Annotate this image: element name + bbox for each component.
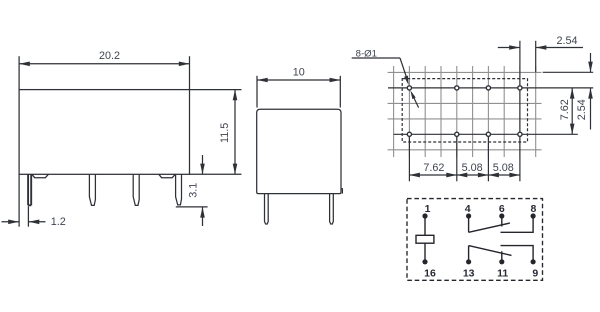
svg-text:9: 9 [532, 268, 538, 280]
svg-text:13: 13 [463, 268, 475, 280]
svg-text:10: 10 [293, 67, 305, 79]
extension lines for dim 11.5 [190, 89, 242, 91]
notch 1 (case bottom relief) [32, 174, 49, 177]
svg-text:4: 4 [465, 203, 471, 215]
dimension 7.62 right [571, 88, 573, 134]
svg-text:2.54: 2.54 [576, 99, 588, 120]
hole row lines [388, 87, 593, 89]
dimension 2.54 top [498, 47, 520, 49]
svg-text:8-Ø1: 8-Ø1 [356, 49, 377, 60]
dimension 2.54 right [590, 53, 592, 72]
svg-text:1.2: 1.2 [51, 216, 66, 228]
pin P1 (side view, left) [28, 174, 31, 205]
wire pin1 to coil [424, 216, 426, 235]
wire pin4 [468, 216, 470, 232]
wire pin8 fixed contact [501, 216, 534, 232]
relay body front view [257, 109, 341, 193]
pin P4 (side view) [176, 174, 182, 205]
pin (front view, left) [265, 194, 269, 224]
svg-text:7.62: 7.62 [559, 99, 571, 120]
wire pin11 fixed contact [501, 251, 503, 261]
terminal dot pin 16 [422, 259, 427, 264]
notch 2 (case bottom relief) [159, 174, 176, 177]
wire pin13 [468, 246, 470, 262]
schematic border dashed [407, 199, 543, 281]
svg-text:5.08: 5.08 [493, 162, 514, 174]
svg-text:2.54: 2.54 [556, 35, 577, 47]
side tab [341, 189, 342, 194]
terminal dot pin 6 [499, 213, 504, 218]
pin (front view, right) [330, 194, 334, 224]
PCB layout grid [388, 66, 542, 157]
pin P2 (side view) [89, 174, 95, 205]
coil K1 [416, 235, 434, 243]
pcb outline dashed [402, 79, 527, 142]
svg-text:11.5: 11.5 [219, 123, 231, 143]
contact blade A (pin4 common) [469, 223, 510, 232]
terminal dot pin 9 [531, 259, 536, 264]
schematic [407, 199, 543, 281]
terminal dot pin 1 [422, 213, 427, 218]
dimension 3.1 [176, 206, 208, 208]
wire coil to pin16 [424, 243, 426, 262]
svg-text:16: 16 [424, 268, 436, 280]
svg-text:11: 11 [497, 268, 508, 280]
svg-text:1: 1 [425, 203, 431, 215]
terminal dot pin 8 [531, 213, 536, 218]
terminal dot pin 13 [466, 259, 471, 264]
svg-text:5.08: 5.08 [462, 162, 483, 174]
extension lines for dim 10 [256, 76, 258, 108]
dimension 20.2 [19, 63, 189, 65]
front view [257, 76, 343, 224]
pin P3 (side view) [133, 174, 139, 205]
hole column extension lines [408, 134, 410, 181]
extension lines for dim 20.2 [18, 56, 20, 89]
contact blade B (pin13 common) [469, 246, 512, 256]
dimension row bottom 7.62 / 5.08 / 5.08 [409, 174, 520, 176]
terminal dot pin 11 [499, 259, 504, 264]
terminal dot pin 4 [466, 213, 471, 218]
holes 8x [407, 86, 522, 137]
svg-text:20.2: 20.2 [99, 50, 120, 62]
svg-text:7.62: 7.62 [423, 162, 444, 174]
dimension 10 [257, 79, 340, 81]
svg-text:8: 8 [530, 203, 536, 215]
wire pin9 fixed contact [501, 246, 534, 262]
wire pin6 fixed contact [501, 216, 503, 227]
grid-edge extension line [543, 71, 594, 73]
bottom dim arrowheads [409, 173, 520, 178]
dimension 1.2 [18, 174, 20, 226]
dimension 11.5 [234, 90, 236, 175]
svg-text:3.1: 3.1 [188, 183, 200, 198]
svg-text:6: 6 [499, 203, 505, 215]
leader 8-O1 [352, 58, 419, 108]
relay body side view [19, 90, 189, 175]
